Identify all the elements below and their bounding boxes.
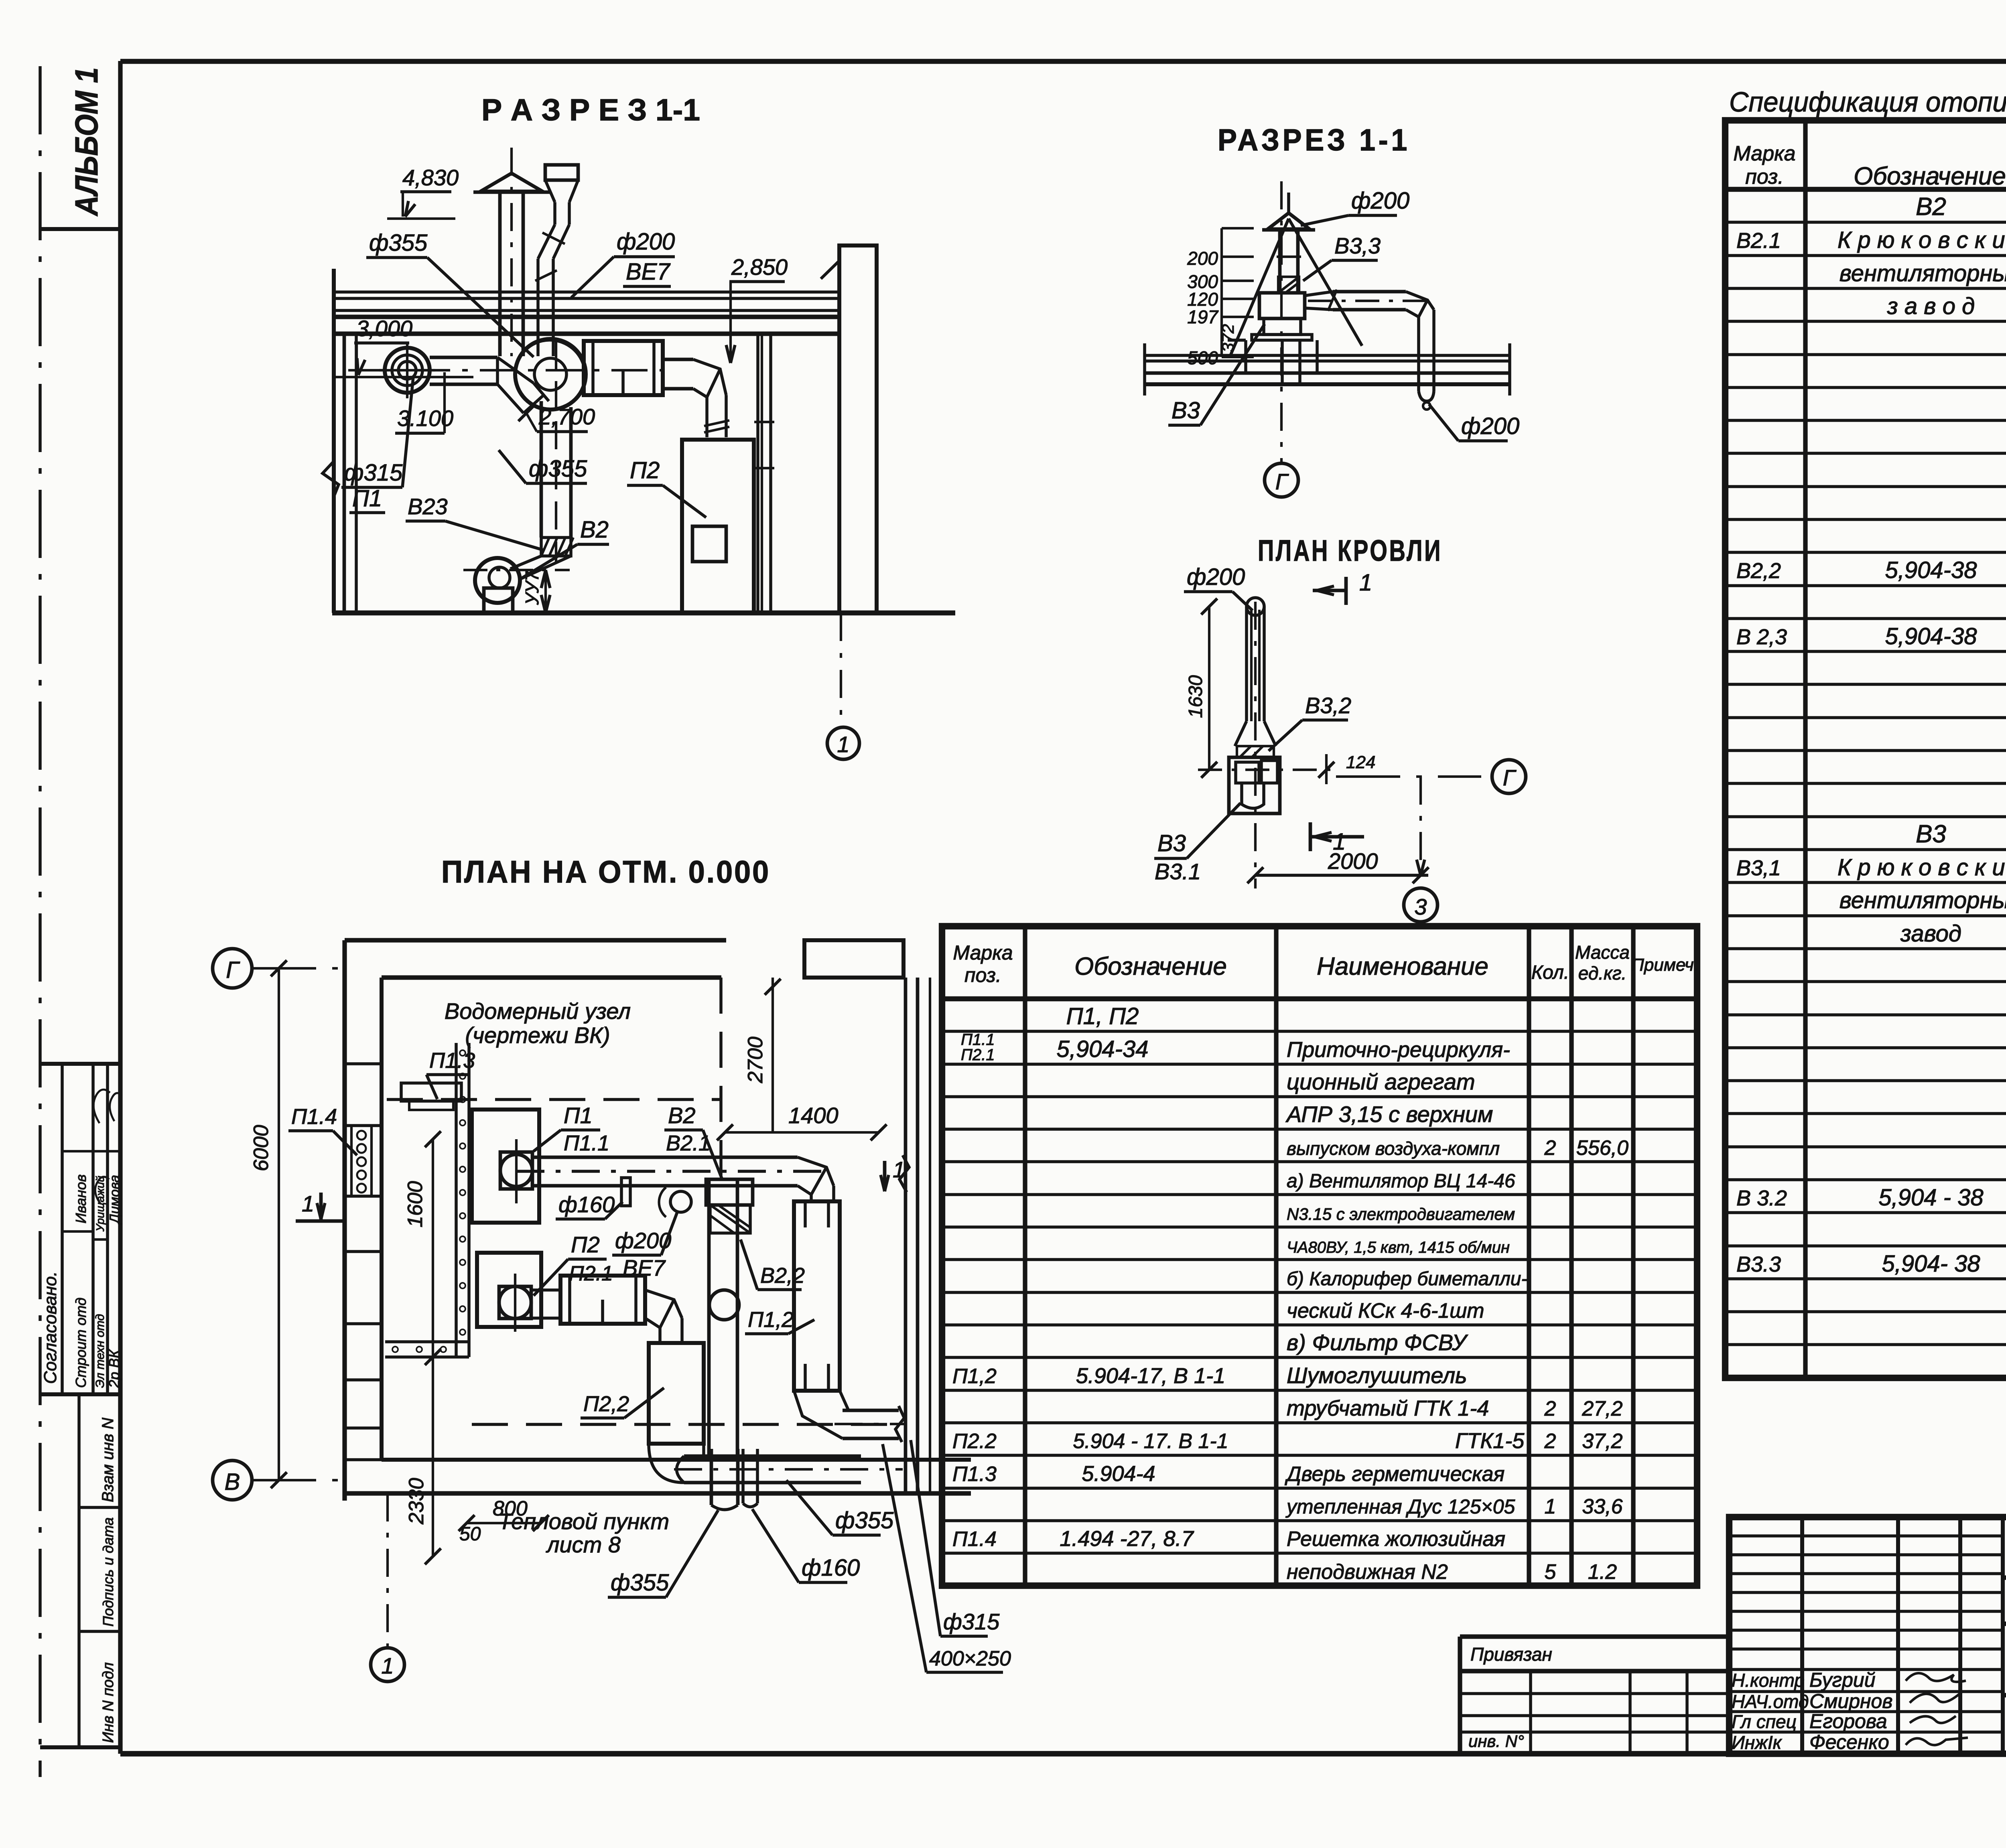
svg-text:В2,2: В2,2: [760, 1264, 805, 1288]
svg-text:1: 1: [837, 732, 849, 757]
svg-text:ционный агрегат: ционный агрегат: [1287, 1069, 1475, 1094]
svg-text:5.904-17, В 1-1: 5.904-17, В 1-1: [1076, 1364, 1225, 1388]
plan П1.3 door detail: [401, 1083, 461, 1101]
svg-text:Гл спец: Гл спец: [1732, 1711, 1797, 1732]
elbow down right section A: [693, 359, 726, 413]
svg-text:27,2: 27,2: [1582, 1397, 1622, 1420]
svg-text:4,830: 4,830: [402, 165, 459, 190]
svg-text:АЛЬБОМ 1: АЛЬБОМ 1: [69, 67, 104, 217]
svg-text:П1: П1: [352, 485, 382, 511]
svg-text:(чертежи ВК): (чертежи ВК): [465, 1022, 610, 1048]
plan fan П1 square and circle: [500, 1152, 532, 1189]
svg-text:ческий КСк 4-6-1шт: ческий КСк 4-6-1шт: [1287, 1299, 1484, 1323]
svg-text:з а в о д: з а в о д: [1887, 293, 1975, 319]
section B elbow down: [1406, 292, 1434, 317]
svg-text:Тепловой пункт: Тепловой пункт: [498, 1509, 669, 1534]
sidebar column Строит отд Иванов: [91, 1064, 95, 1394]
center table row lines: [942, 1030, 1697, 1033]
plan dim 800 50: [467, 1522, 541, 1524]
svg-text:Обозначение: Обозначение: [1854, 162, 2006, 190]
svg-text:вентиляторный: вентиляторный: [1840, 260, 2006, 286]
svg-text:1400: 1400: [788, 1103, 839, 1128]
title block appendix grid: [1529, 1671, 1532, 1754]
duct П1 to junction: [430, 356, 497, 359]
svg-text:П2,2: П2,2: [583, 1392, 629, 1416]
plan unit П1 box: [472, 1110, 539, 1223]
plan ф200 circle ВЕ7: [670, 1191, 691, 1212]
section B flex В3.3 hatch: [1278, 277, 1299, 293]
svg-text:5,904-34: 5,904-34: [1057, 1036, 1149, 1062]
svg-text:ВЕ7: ВЕ7: [623, 1255, 666, 1280]
svg-text:500: 500: [1187, 347, 1218, 368]
sidebar column Согласовано: [61, 1064, 64, 1394]
duct riser ф355 drop: [540, 401, 543, 538]
svg-text:Бугрий: Бугрий: [1809, 1669, 1876, 1691]
svg-text:В3.1: В3.1: [1155, 859, 1201, 884]
plan dim 1600: [432, 1139, 434, 1357]
svg-text:Дверь герметическая: Дверь герметическая: [1285, 1463, 1504, 1486]
roof plan axis circle Г: [1492, 760, 1526, 793]
plan left wall outer: [342, 978, 347, 1501]
svg-text:завод: завод: [1900, 921, 1961, 947]
left wall break squiggle: [323, 461, 339, 497]
svg-text:В2: В2: [668, 1103, 696, 1128]
plan axis circle 1 bottom: [371, 1648, 404, 1682]
svg-text:ИнжIк: ИнжIк: [1732, 1732, 1783, 1753]
section B axis centerline: [1280, 181, 1283, 462]
svg-text:1: 1: [381, 1653, 394, 1678]
svg-text:ф355: ф355: [835, 1507, 894, 1534]
svg-text:ЧА80ВУ, 1,5 квт, 1415 об/мин: ЧА80ВУ, 1,5 квт, 1415 об/мин: [1287, 1239, 1510, 1256]
svg-text:РАЗРЕЗ 1-1: РАЗРЕЗ 1-1: [1218, 123, 1410, 157]
fan В2 motor box: [484, 588, 513, 613]
flex insert В23 hatch: [541, 538, 571, 556]
svg-text:1: 1: [1545, 1495, 1556, 1518]
svg-text:1: 1: [302, 1191, 314, 1216]
signature scribbles: [1906, 1673, 1966, 1682]
svg-text:Подпись и дата: Подпись и дата: [100, 1517, 116, 1627]
fan П1 left circles: [385, 348, 430, 393]
svg-text:Г: Г: [1503, 765, 1517, 790]
svg-text:В2.1: В2.1: [1736, 229, 1781, 253]
plan unit В2 cluster: [706, 1179, 753, 1205]
svg-text:а) Вентилятор ВЦ 14-46: а) Вентилятор ВЦ 14-46: [1287, 1170, 1515, 1192]
svg-text:П2.1: П2.1: [961, 1046, 995, 1064]
title block Здание автостанции row: [2003, 1693, 2006, 1697]
svg-text:5,904- 38: 5,904- 38: [1882, 1251, 1980, 1277]
plan riser circle ф355: [709, 1290, 739, 1320]
svg-text:В 3.2: В 3.2: [1736, 1186, 1787, 1210]
svg-text:В3,2: В3,2: [1305, 693, 1351, 718]
svg-text:В2: В2: [1916, 193, 1946, 221]
sidebar cell АЛЬБОМ 1: [40, 227, 120, 231]
silencer box section A: [584, 341, 663, 395]
svg-text:2,700: 2,700: [538, 404, 595, 429]
title block left appendix Привязан box: [1460, 1634, 1729, 1639]
sidebar cell Взам инв N: [77, 1394, 81, 1747]
plan elbow П2 down: [645, 1290, 682, 1343]
svg-text:В3,1: В3,1: [1736, 856, 1781, 880]
center table outer border: [942, 926, 1697, 1586]
sidebar cell Подпись и дата: [79, 1630, 120, 1633]
roof plan cone transition: [1235, 721, 1247, 746]
svg-text:400×250: 400×250: [929, 1647, 1011, 1670]
roof plan stack duct: [1245, 607, 1248, 721]
svg-text:ГТК1-5: ГТК1-5: [1455, 1429, 1525, 1453]
svg-text:В3: В3: [1172, 398, 1200, 424]
svg-text:2: 2: [1544, 1397, 1556, 1420]
section B leader triangle: [1230, 219, 1289, 356]
title block document number ТП 503-5-41.90-ОВ: [2003, 1575, 2006, 1580]
center table header: [942, 996, 1697, 1002]
chimney centerline: [510, 148, 513, 356]
plan П1.2 silencer vertical: [794, 1201, 840, 1391]
svg-text:33,6: 33,6: [1582, 1495, 1622, 1518]
plan unit П2 box: [477, 1253, 541, 1327]
plan axis circle В: [213, 1461, 252, 1500]
svg-text:Водомерный узел: Водомерный узел: [445, 998, 631, 1024]
sidebar bottom stamp divider: [40, 1392, 120, 1396]
section B roof end ticks: [1143, 343, 1146, 396]
duct channel right pair: [756, 334, 759, 613]
svg-text:неподвижная N2: неподвижная N2: [1287, 1560, 1448, 1584]
sidebar stamp area top line: [40, 1062, 120, 1066]
plan duct bottom right exit: [843, 1409, 899, 1412]
svg-text:К р ю к о в с к и й: К р ю к о в с к и й: [1837, 854, 2006, 880]
svg-text:ф355: ф355: [529, 456, 587, 482]
duct ВЕ7 funnel: [545, 165, 578, 180]
section B duct below unit through roof: [1281, 340, 1284, 384]
section B horizontal duct: [1333, 290, 1406, 294]
svg-text:ф160: ф160: [802, 1555, 860, 1581]
title block object name Пассажирская автостанция: [2003, 1621, 2006, 1626]
plan П1.4 louvre hatch: [351, 1126, 372, 1196]
svg-text:Г: Г: [1275, 469, 1289, 494]
plan dim 2330: [432, 1357, 434, 1556]
svg-text:П1,2: П1,2: [748, 1308, 794, 1332]
duct to right elbow: [663, 358, 693, 361]
svg-text:Димова: Димова: [107, 1175, 122, 1225]
svg-text:П2: П2: [630, 457, 660, 483]
unit П2 cabinet: [682, 440, 754, 613]
svg-text:ф315: ф315: [943, 1609, 1000, 1634]
axis line to circle 1 section A: [840, 613, 842, 727]
svg-text:Фесенко: Фесенко: [1809, 1731, 1889, 1753]
svg-text:37,2: 37,2: [1582, 1430, 1622, 1453]
svg-text:В3: В3: [1916, 820, 1946, 848]
plan П1.2 bottom elbow: [794, 1391, 849, 1438]
right table row lines: [1725, 221, 2006, 224]
plan elbow П1 to П1.2: [798, 1157, 834, 1201]
plan drop duct ф160 below wall: [741, 1449, 745, 1503]
plan axis circle Г: [213, 949, 252, 988]
plan insulated partition vertical: [455, 1043, 458, 1357]
svg-text:В3,3: В3,3: [1334, 233, 1381, 258]
svg-text:Взам инв N: Взам инв N: [99, 1418, 117, 1502]
roof plan dim 1630: [1208, 607, 1210, 770]
plan П2 silencer box: [560, 1276, 645, 1324]
plan duct bottom horizontal: [684, 1454, 861, 1458]
fan В2 centerline: [463, 569, 570, 571]
svg-text:В2: В2: [580, 517, 609, 543]
right table header row: [1725, 187, 2006, 192]
plan right wall pair: [904, 978, 908, 1493]
svg-text:1630: 1630: [1185, 675, 1206, 718]
plan dashed room boundary water unit: [387, 1098, 721, 1101]
svg-text:ПЛАН КРОВЛИ: ПЛАН КРОВЛИ: [1258, 534, 1442, 567]
svg-text:5,904 - 38: 5,904 - 38: [1878, 1185, 1983, 1211]
left wall section A: [332, 269, 336, 613]
svg-text:П1.4: П1.4: [291, 1105, 337, 1129]
П2 window: [692, 526, 726, 562]
plan duct riser В2 vertical pair: [707, 1179, 711, 1456]
roof plan axis circle 3: [1404, 888, 1437, 922]
svg-text:Смирнов: Смирнов: [1809, 1690, 1892, 1712]
plan П2 bottom elbow: [649, 1444, 704, 1483]
title block small grid columns: [1800, 1517, 1804, 1754]
svg-text:5.904-4: 5.904-4: [1082, 1462, 1155, 1486]
svg-text:1600: 1600: [404, 1181, 427, 1227]
svg-text:ф160: ф160: [558, 1192, 615, 1217]
svg-text:В3: В3: [1157, 830, 1186, 856]
svg-text:6000: 6000: [250, 1125, 273, 1171]
svg-text:2: 2: [1544, 1430, 1556, 1453]
plan left wall piers: [345, 1062, 382, 1065]
svg-text:1: 1: [1359, 570, 1372, 596]
chimney umbrella cap: [481, 173, 542, 191]
plan insulated partition horizontal: [385, 1340, 469, 1343]
svg-text:ВЕ7: ВЕ7: [626, 259, 671, 285]
fan В2 scroll circle: [515, 339, 586, 410]
plan section mark 1 left: [319, 1193, 323, 1219]
duct ВЕ7 upper vertical: [553, 202, 556, 225]
plan bottom wall: [382, 1458, 971, 1462]
duct ВЕ7 jog: [538, 225, 555, 259]
svg-text:5.904 - 17. В 1-1: 5.904 - 17. В 1-1: [1073, 1430, 1228, 1453]
section B chimney cap: [1268, 213, 1310, 229]
title block outer border: [1729, 1517, 2006, 1754]
svg-text:Г: Г: [226, 957, 240, 983]
roof plan unit В3 outline: [1229, 757, 1280, 813]
svg-text:2330: 2330: [405, 1478, 428, 1525]
roof plan stack top circle: [1247, 598, 1264, 615]
svg-text:ф315: ф315: [344, 460, 403, 486]
svg-text:утепленная Дус 125×05: утепленная Дус 125×05: [1285, 1495, 1515, 1518]
svg-text:П2.2: П2.2: [952, 1430, 997, 1453]
plan top-right block: [804, 940, 904, 978]
page frame left border: [118, 61, 122, 1754]
duct centerline П1: [348, 369, 664, 371]
svg-text:ф200: ф200: [1351, 188, 1409, 214]
sidebar column 2р ВК Димова: [62, 1150, 120, 1152]
center table column lines: [1023, 926, 1027, 1586]
svg-text:Н.контр: Н.контр: [1732, 1670, 1805, 1691]
plan section mark 1 right: [883, 1161, 887, 1191]
right table outer border: [1725, 120, 2006, 1378]
section B axis circle Г: [1265, 463, 1298, 497]
right wall column section A: [839, 245, 877, 613]
plan duct П1 supply run: [532, 1156, 798, 1159]
svg-text:П2.1: П2.1: [569, 1262, 613, 1285]
roof plan axis to 3: [1419, 777, 1422, 886]
svg-text:50: 50: [459, 1523, 481, 1545]
svg-text:ф355: ф355: [369, 230, 428, 256]
section B chimney duct: [1278, 230, 1282, 292]
svg-text:ед.кг.: ед.кг.: [1578, 963, 1626, 984]
svg-text:Иванов: Иванов: [73, 1175, 89, 1223]
roof plan section mark 1 bottom: [1309, 822, 1312, 851]
section B duct cone to horizontal: [1305, 292, 1333, 296]
svg-text:инв. N°: инв. N°: [1468, 1732, 1524, 1751]
svg-text:ф200: ф200: [1187, 564, 1245, 590]
svg-text:5,904-38: 5,904-38: [1885, 623, 1977, 649]
svg-text:П1.3: П1.3: [952, 1463, 997, 1486]
floor line section A: [332, 611, 955, 616]
page frame left dash-dot margin line: [39, 66, 42, 1777]
svg-text:Привязан: Привязан: [1470, 1644, 1552, 1665]
scroll fan inner: [534, 358, 566, 390]
svg-text:Обозначение: Обозначение: [1074, 953, 1227, 980]
svg-text:5,904-38: 5,904-38: [1885, 557, 1977, 583]
svg-text:2р ВК: 2р ВК: [106, 1349, 122, 1388]
roof plan centerline vertical: [1254, 602, 1257, 889]
svg-text:П2: П2: [571, 1232, 600, 1257]
plan ф160 duct stub: [621, 1178, 630, 1206]
junction transition trapezoids: [497, 357, 534, 413]
title block small grid rows: [1729, 1534, 2003, 1538]
svg-text:АПР 3,15 с верхним: АПР 3,15 с верхним: [1285, 1101, 1493, 1127]
roof plan unit inner parts: [1236, 762, 1259, 783]
right table column lines: [1803, 120, 1807, 1378]
svg-text:Марка: Марка: [1733, 142, 1795, 165]
sidebar signature scribbles: [93, 1089, 110, 1123]
svg-text:В3.3: В3.3: [1736, 1252, 1781, 1276]
roof plan axis to Г: [1336, 775, 1481, 778]
svg-text:1.2: 1.2: [1588, 1560, 1617, 1584]
plan duct П2 stub: [531, 1288, 560, 1292]
duct ВЕ7 lower vertical: [536, 259, 540, 356]
roof plan centerline horizontal: [1198, 769, 1332, 771]
svg-text:П1.3: П1.3: [429, 1049, 475, 1073]
svg-text:В: В: [225, 1469, 240, 1495]
svg-text:Примеч.: Примеч.: [1631, 955, 1699, 975]
svg-text:2,850: 2,850: [731, 254, 788, 280]
svg-text:1.494 -27, 8.7: 1.494 -27, 8.7: [1060, 1527, 1194, 1551]
svg-text:П1, П2: П1, П2: [1066, 1003, 1139, 1029]
svg-text:ПЛАН НА ОТМ. 0.000: ПЛАН НА ОТМ. 0.000: [441, 854, 770, 889]
svg-text:3,000: 3,000: [356, 316, 412, 341]
svg-text:В2,2: В2,2: [1736, 559, 1781, 583]
section B fan unit В3.1: [1259, 293, 1305, 318]
svg-text:Строит отд: Строит отд: [73, 1298, 89, 1388]
svg-text:2000: 2000: [1328, 848, 1378, 874]
svg-text:5: 5: [1545, 1560, 1557, 1584]
flex joint П2: [704, 420, 729, 426]
svg-text:К р ю к о в с к и й: К р ю к о в с к и й: [1837, 227, 2006, 253]
svg-text:Инв N подл: Инв N подл: [100, 1662, 117, 1743]
svg-text:В23: В23: [408, 494, 448, 519]
svg-text:лист 8: лист 8: [546, 1532, 621, 1557]
section B unit pedestal: [1244, 340, 1247, 373]
svg-text:556,0: 556,0: [1576, 1136, 1628, 1160]
axis circle 1 section A: [827, 727, 859, 759]
svg-text:поз.: поз.: [1745, 165, 1784, 189]
svg-text:197: 197: [1187, 306, 1218, 327]
fan В2 bottom scroll: [475, 558, 520, 603]
svg-text:Р А З Р Е З 1-1: Р А З Р Е З 1-1: [481, 93, 700, 127]
svg-text:ф200: ф200: [1461, 413, 1519, 439]
roof plan flex hatch В3.2: [1237, 746, 1274, 757]
svg-text:Спецификация отопительно-венти: Спецификация отопительно-вентиляционных …: [1729, 86, 2006, 118]
svg-text:трубчатый ГТК 1-4: трубчатый ГТК 1-4: [1287, 1396, 1489, 1420]
plan fan П2 square and circle: [499, 1286, 531, 1319]
sidebar column Эл техн отд Урищажий: [106, 1064, 109, 1394]
page frame top border: [120, 59, 2006, 64]
svg-text:Согласовано.: Согласовано.: [41, 1271, 60, 1384]
chimney duct В2 exhaust stack: [498, 191, 502, 356]
svg-text:Масса: Масса: [1575, 942, 1630, 963]
svg-text:ф355: ф355: [611, 1570, 669, 1596]
svg-text:в) Фильтр ФСВУ: в) Фильтр ФСВУ: [1287, 1330, 1468, 1355]
riser centerline dashed: [555, 341, 557, 562]
svg-text:Приточно-рециркуля-: Приточно-рециркуля-: [1287, 1038, 1510, 1062]
svg-text:Решетка жолюзийная: Решетка жолюзийная: [1287, 1527, 1505, 1551]
svg-text:вентиляторный: вентиляторный: [1840, 887, 2006, 913]
plan top wall: [345, 938, 726, 942]
svg-text:124: 124: [1346, 753, 1375, 772]
svg-text:поз.: поз.: [964, 964, 1001, 986]
svg-text:2: 2: [1544, 1136, 1556, 1160]
svg-text:Наименование: Наименование: [1317, 953, 1488, 980]
svg-text:Кол.: Кол.: [1531, 962, 1569, 983]
roof plan section mark 1 top: [1344, 577, 1348, 605]
page frame bottom border: [120, 1751, 2006, 1757]
plan dashed line lower room: [472, 1423, 906, 1426]
section B dim ladder: [1220, 228, 1223, 357]
svg-text:ф200: ф200: [617, 229, 675, 255]
svg-text:Шумоглушитель: Шумоглушитель: [1287, 1363, 1467, 1388]
plan drop duct ф355 below wall: [710, 1449, 713, 1505]
svg-text:В 2,3: В 2,3: [1736, 625, 1787, 649]
svg-text:б) Калорифер биметалли-: б) Калорифер биметалли-: [1287, 1268, 1527, 1290]
ceiling line section A: [335, 331, 839, 336]
section B roof lines: [1145, 354, 1510, 357]
cone to bottom fan В2: [510, 556, 541, 569]
svg-text:Марка: Марка: [953, 941, 1013, 964]
plan duct П1 centerline: [516, 1170, 822, 1173]
roof slab lines section A: [333, 290, 839, 294]
svg-text:200: 200: [1187, 248, 1218, 269]
svg-text:N3.15 с электродвигателем: N3.15 с электродвигателем: [1287, 1205, 1515, 1223]
svg-text:Егорова: Егорова: [1809, 1710, 1887, 1732]
svg-text:П1,2: П1,2: [952, 1365, 997, 1388]
svg-text:выпуском воздуха-компл: выпуском воздуха-компл: [1287, 1138, 1500, 1159]
plan left wall inner: [380, 978, 384, 1460]
sidebar bottom line: [40, 1745, 120, 1749]
svg-text:2700: 2700: [744, 1037, 767, 1083]
plan dim 6000: [278, 968, 280, 1480]
plan dim 2700: [772, 978, 774, 1132]
svg-text:П1: П1: [564, 1103, 593, 1128]
svg-text:3: 3: [1414, 894, 1427, 919]
section B duct centerline horizontal: [1308, 300, 1428, 302]
svg-text:Эл техн отд: Эл техн отд: [93, 1314, 107, 1388]
svg-text:П1.1: П1.1: [564, 1131, 609, 1155]
plan П2.2 box vertical: [649, 1343, 704, 1444]
svg-text:НАЧ.отд: НАЧ.отд: [1732, 1691, 1809, 1712]
svg-text:П1.4: П1.4: [952, 1527, 997, 1551]
section B duct outlet rounded tip: [1419, 391, 1434, 401]
